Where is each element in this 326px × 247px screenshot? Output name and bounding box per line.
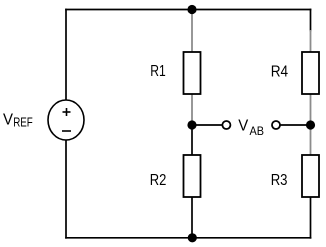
svg-text:AB: AB xyxy=(250,124,265,138)
svg-text:V: V xyxy=(3,112,13,129)
svg-text:R3: R3 xyxy=(271,172,288,189)
svg-text:R2: R2 xyxy=(150,172,167,189)
svg-text:R1: R1 xyxy=(150,63,166,80)
svg-text:R4: R4 xyxy=(271,64,288,81)
svg-text:REF: REF xyxy=(13,115,33,130)
svg-text:V: V xyxy=(238,118,248,135)
